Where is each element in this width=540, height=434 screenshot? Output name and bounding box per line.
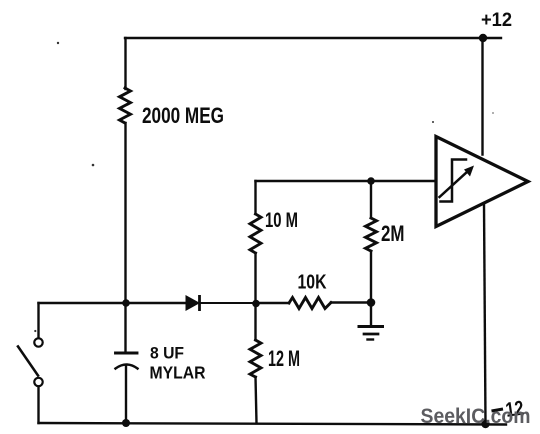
svg-text:MYLAR: MYLAR [150,363,206,383]
svg-text:+12: +12 [481,10,512,31]
svg-text:SeekIC.com: SeekIC.com [421,404,531,428]
svg-text:8 UF: 8 UF [150,344,184,363]
svg-text:10K: 10K [298,272,327,294]
svg-text:10 M: 10 M [265,209,298,232]
svg-text:2000 MEG: 2000 MEG [142,103,224,128]
svg-text:2M: 2M [381,221,405,246]
svg-text:12 M: 12 M [268,346,300,371]
